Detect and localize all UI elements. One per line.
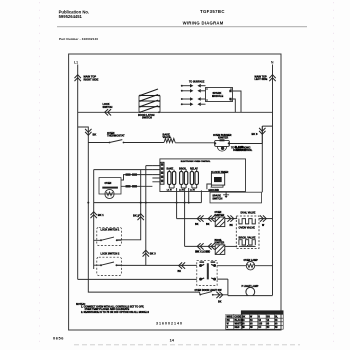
svg-text:WIRE: WIRE (227, 316, 233, 318)
oven door light switch blade (199, 292, 213, 296)
wire N vertical (272, 65, 274, 296)
svg-text:SWITCH: SWITCH (103, 106, 113, 109)
svg-text:MODULE: MODULE (212, 94, 224, 98)
bus y=279.3 (78, 279, 228, 296)
svg-text:P LIGHT LAMP: P LIGHT LAMP (242, 285, 259, 288)
main diagram border (69, 54, 281, 330)
connector chevron on L1 (75, 75, 81, 81)
wire L1 branch to thermostat (78, 127, 89, 143)
connector chevron up riser (91, 212, 97, 218)
svg-text:BK: BK (242, 316, 246, 318)
svg-text:RED: RED (235, 327, 240, 329)
wire left riser x=88.3 (88, 143, 199, 293)
svg-text:BK: BK (230, 225, 234, 227)
wire igniter to valve (225, 218, 237, 220)
oven thermostat switch (109, 142, 111, 144)
bus oven lamp row y=265.5 (117, 264, 273, 266)
wire mid riser x=140.7 (118, 170, 141, 240)
bus oven igniter row y=218.6 (177, 218, 215, 220)
igniter bar symbol (102, 187, 118, 189)
connector run 1 to EOC (121, 175, 152, 180)
svg-text:IGNITER: IGNITER (215, 214, 225, 217)
door switch contacts (199, 261, 216, 280)
dual valve box dashed (236, 216, 259, 249)
svg-text:BK: BK (227, 320, 231, 322)
junction dots bus202 (140, 202, 142, 204)
svg-text:IGNITER: IGNITER (218, 136, 228, 139)
wire right drop x=262.3 (262, 126, 272, 192)
spark module terminal 1 (229, 90, 231, 92)
connector arrows to surface units row1 (181, 84, 206, 88)
svg-text:CODE: CODE (235, 316, 242, 318)
EOC solenoid bake (167, 167, 176, 188)
svg-text:OVEN CONTROL: OVEN CONTROL (233, 149, 253, 152)
svg-text:L1 N: L1 N (179, 190, 184, 192)
svg-text:L1: L1 (74, 61, 78, 65)
svg-text:BK 6: BK 6 (252, 132, 258, 136)
svg-text:BK 3: BK 3 (150, 251, 156, 255)
electronic oven control box (160, 159, 246, 192)
spark module box (206, 88, 233, 102)
svg-text:BAKE: BAKE (167, 167, 174, 170)
svg-text:BR: BR (267, 316, 271, 318)
EOC pin strip (160, 162, 164, 184)
svg-text:LOCK SWITCH 2: LOCK SWITCH 2 (101, 252, 121, 255)
connector arrows to surface units row3 (181, 97, 206, 101)
EOC solenoid relay (190, 167, 198, 188)
oven igniter hatched square (215, 217, 225, 227)
connector chevron on bus A (105, 109, 111, 115)
oven lamp box (99, 178, 121, 194)
bake coil zigzag (164, 139, 175, 143)
oven burner igniter oval (214, 139, 230, 151)
bottom scan smudge (74, 344, 300, 346)
spark module terminal 2 (229, 98, 231, 100)
wire igniter2 to valve box (225, 245, 237, 247)
svg-text:BK: BK (195, 223, 199, 226)
thermostat bus y=142.5 (88, 126, 262, 143)
lock switch 2 contacts (94, 262, 122, 266)
svg-text:BK CLOSED: BK CLOSED (196, 251, 210, 254)
connector chevron up mid riser (138, 214, 144, 220)
svg-text:5995264451: 5995264451 (59, 14, 83, 19)
svg-text:RIGHT SIDE: RIGHT SIDE (84, 77, 99, 81)
svg-text:BROIL VALVE: BROIL VALVE (239, 235, 256, 239)
svg-text:BK 1: BK 1 (98, 213, 104, 217)
svg-text:0656: 0656 (53, 336, 64, 341)
svg-text:IGNITER: IGNITER (215, 242, 225, 245)
igniter circle (105, 189, 114, 198)
connector arrows to surface units row2 (181, 89, 206, 93)
svg-text:BK: BK (93, 133, 97, 137)
notes block (76, 303, 149, 314)
svg-text:WIRING DIAGRAM: WIRING DIAGRAM (183, 21, 224, 26)
svg-text:2. RESISTANCE IS TO 75 OR OFF: 2. RESISTANCE IS TO 75 OR OFF OPTION ON … (81, 311, 149, 314)
oven lamp circle (246, 262, 254, 270)
valve coil 1 (239, 219, 255, 224)
wire valve to N (259, 218, 273, 220)
svg-text:Part Number - 316002140: Part Number - 316002140 (59, 37, 98, 41)
connector run 2 to EOC (121, 185, 152, 187)
svg-text:LEFT SIDE: LEFT SIDE (255, 78, 268, 81)
p light lamp omega (246, 287, 255, 295)
connector chevron up riser2 (143, 250, 149, 256)
wire spark module out 2 (233, 99, 236, 112)
svg-text:ELECTRONIC OVEN CONTROL: ELECTRONIC OVEN CONTROL (181, 161, 211, 163)
connector chevron on N (269, 75, 275, 81)
svg-text:OVEN: OVEN (105, 182, 112, 185)
svg-text:BK 2: BK 2 (133, 214, 139, 218)
wire spark module out 1 (233, 91, 242, 112)
svg-text:DUAL VALVE: DUAL VALVE (241, 212, 256, 215)
bus broil igniter row y=246.4 (185, 245, 215, 247)
svg-text:BK: BK (218, 301, 222, 304)
EOC solenoid broil (179, 167, 188, 188)
lock switch 2 dashed box (97, 257, 122, 275)
spark switch box below EOC (210, 192, 262, 203)
INTERIOR (74, 61, 283, 330)
junction dot riser/bus202 (87, 202, 89, 204)
EOC clock display box (207, 171, 229, 190)
svg-text:316002140: 316002140 (156, 322, 183, 326)
svg-text:LOCK SWITCH 1: LOCK SWITCH 1 (101, 229, 121, 232)
wire bus A y=112.3 (78, 111, 273, 113)
wire bus y=202.6 (94, 190, 202, 202)
wire bus y=169.6 (94, 169, 153, 171)
broil igniter hatched square (215, 245, 225, 255)
svg-text:THERMOSTAT: THERMOSTAT (107, 134, 125, 138)
svg-text:SWITCH: SWITCH (142, 117, 152, 120)
EOC drop wires (177, 188, 189, 246)
svg-text:VALVE: VALVE (163, 135, 172, 139)
svg-text:L1 N: L1 N (167, 190, 172, 192)
bottom bus y=292-295.5 (200, 292, 273, 296)
EOC pin stubs (152, 166, 160, 182)
fold mark dotted line left (39, 2, 41, 348)
svg-text:BK: BK (206, 223, 210, 226)
svg-text:TO SURFACE: TO SURFACE (189, 81, 205, 84)
wire L1 vertical (77, 65, 79, 280)
svg-text:OVEN DOOR LIGHT SW: OVEN DOOR LIGHT SW (195, 289, 223, 292)
svg-text:TGF357BC: TGF357BC (200, 9, 225, 14)
connector chevron down right drop (259, 128, 265, 134)
legend table (226, 311, 284, 330)
svg-text:GROUND: GROUND (208, 189, 219, 192)
legend table header strip (241, 311, 283, 314)
connector arrows to surface units row4 (181, 102, 206, 106)
lock switch 1 dashed box (97, 227, 122, 245)
svg-text:OVEN LAMP: OVEN LAMP (244, 259, 259, 262)
probe symbol in box (223, 192, 229, 196)
door switch dashed box (197, 261, 217, 286)
wire left box riser x=93.7 (93, 170, 95, 269)
fold mark dotted line right (333, 2, 335, 348)
connector chevron down on branch (85, 129, 91, 135)
svg-text:SWITCH: SWITCH (212, 197, 222, 200)
door latch switch block (139, 89, 160, 113)
wire riser x=145.8 (146, 166, 153, 266)
svg-text:BK: BK (178, 270, 182, 273)
lock switch 1 contacts (94, 237, 122, 241)
svg-text:OVEN VALVE: OVEN VALVE (239, 225, 256, 229)
legend table cell text (227, 316, 279, 329)
header underline (57, 26, 307, 28)
svg-text:L1 N: L1 N (190, 190, 195, 192)
